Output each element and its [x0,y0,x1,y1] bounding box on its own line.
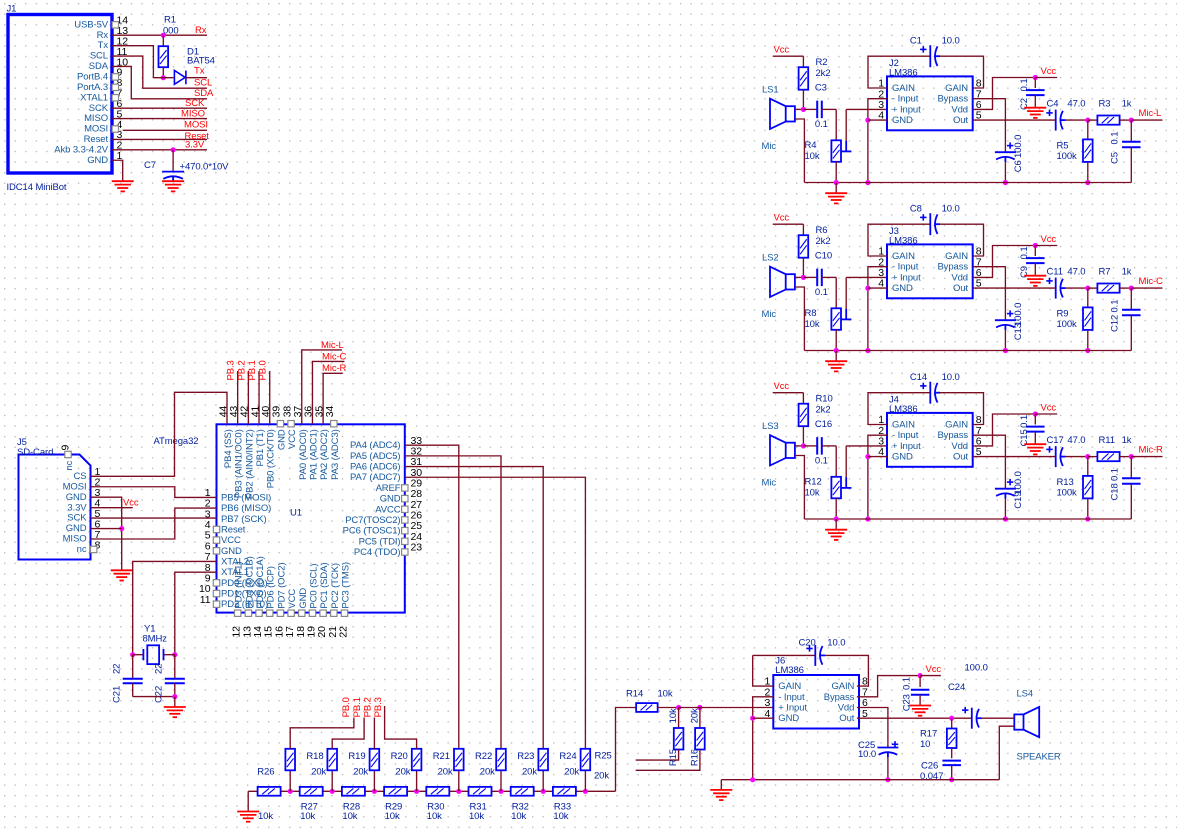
capacitor C12 0.1 [1130,288,1132,309]
capacitor C16 [803,445,817,447]
svg-text:GND: GND [66,523,87,534]
junction node C22 ground [172,694,177,699]
svg-text:PA6 (ADC6): PA6 (ADC6) [350,462,401,473]
svg-text:20k: 20k [480,766,495,777]
junction node J2 pin 4 [865,118,870,123]
wire net PB.1 to U1 pin 41 [258,371,260,424]
capacitor C26 0.047 [942,761,961,766]
wire net Mic-C [1131,287,1162,289]
U1 pin 39 unconnected stub [277,421,283,427]
wire R12 wiper to pin 3 [845,446,847,477]
svg-text:C13: C13 [1013,323,1024,340]
svg-text:Tx: Tx [98,40,109,51]
svg-text:SCK: SCK [67,513,87,524]
resistor R15 10k [678,708,680,729]
svg-text:47.0: 47.0 [1067,267,1085,278]
junction node rail C25 [885,777,890,782]
J1 pin 7 unconnected stub [112,95,118,101]
svg-text:PA5 (ADC5): PA5 (ADC5) [350,451,401,462]
trimmer R8 10k [835,277,837,308]
wire net Vcc stub to R2 [773,55,804,57]
resistor R10 2k2 [802,393,804,404]
wire U1 pin 31 to ladder [405,467,543,749]
junction node rail R12 [834,516,839,521]
svg-text:Out: Out [953,452,968,463]
svg-text:nc: nc [77,544,87,555]
op-amp J2 LM386 [887,76,973,130]
svg-text:Vcc: Vcc [926,664,942,675]
svg-text:GND: GND [276,429,287,450]
U1 pin 24 unconnected stub [402,538,408,544]
svg-text:GND: GND [380,494,401,505]
svg-text:1k: 1k [1122,99,1132,110]
svg-text:20k: 20k [594,771,609,782]
svg-text:000: 000 [163,26,179,37]
U1 pin 14 unconnected stub [256,610,262,616]
U1 pin 20 unconnected stub [320,610,326,616]
U1 pin 38 unconnected stub [288,421,294,427]
svg-text:GND: GND [778,713,799,724]
resistor R24 [542,770,544,791]
svg-text:ATmega32: ATmega32 [154,436,199,447]
svg-text:22: 22 [112,664,123,674]
svg-text:VCC: VCC [287,429,298,449]
svg-text:Vdd: Vdd [951,104,968,115]
svg-text:23: 23 [411,542,423,554]
svg-text:R15: R15 [668,749,679,766]
svg-text:J1: J1 [7,4,17,15]
svg-text:PB.2: PB.2 [362,697,373,717]
svg-text:CS: CS [74,471,87,482]
svg-text:PC3 (TMS): PC3 (TMS) [341,562,352,609]
resistor R22 [458,770,460,791]
svg-text:10.0: 10.0 [827,638,845,649]
J5 pin 8 unconnected stub [91,546,97,552]
wire ground rail of J3 [804,350,1131,352]
svg-text:10.0: 10.0 [942,372,960,383]
wire J2 pin 4 [868,119,887,121]
junction node out/R5 [1085,118,1090,123]
svg-text:9: 9 [60,445,72,451]
resistor R7 1k [1088,287,1098,289]
svg-text:Mic-L: Mic-L [321,340,344,351]
wire rail to ground J6 [720,780,722,790]
resistor R27 [300,787,323,796]
svg-text:C17: C17 [1047,435,1064,446]
svg-text:10k: 10k [805,319,820,330]
svg-text:10k: 10k [553,811,568,822]
svg-text:nc: nc [64,460,75,470]
svg-text:GND: GND [87,155,108,166]
capacitor C5 0.1 [1130,120,1132,141]
junction node rail R13 [1085,516,1090,521]
wire J5 MISO to U1 pin 2 [91,508,217,539]
junction node rail J2 [865,180,870,185]
wire J5 GND down [91,497,122,570]
junction node Vcc C15 [1033,411,1038,416]
capacitor C25 10.0 [877,748,898,758]
svg-text:C26: C26 [921,761,938,772]
wire U1 pin 30 to ladder [405,477,586,749]
wire net Rx from J1 pin 13 [112,34,207,36]
svg-text:Mic-R: Mic-R [1139,444,1164,455]
wire J3 pin 4 [868,287,887,289]
wire J4 pin 2 to ground rail [868,435,887,519]
U1 pin 17 unconnected stub [288,610,294,616]
svg-text:LM386: LM386 [889,235,918,246]
junction node out R17 [949,716,954,721]
capacitor C23 0.1 [919,676,921,687]
svg-text:C18: C18 [1109,483,1120,500]
wire net Mic-L to U1 pin 37 [302,350,342,424]
svg-text:100k: 100k [1057,151,1078,162]
svg-text:PB3 (AIN1/OC0): PB3 (AIN1/OC0) [234,429,245,498]
svg-text:Mic-L: Mic-L [1139,108,1162,119]
junction node J4 pin 4 [865,454,870,459]
U1 pin 21 unconnected stub [331,610,337,616]
junction node rail C19 [1003,516,1008,521]
svg-text:VCC: VCC [221,535,241,546]
svg-text:PC0 (SCL): PC0 (SCL) [308,564,319,609]
ground symbol below C2 [1024,108,1046,118]
svg-text:C21: C21 [112,686,123,703]
diode D1 BAT54 [153,77,173,79]
capacitor C22 [174,655,176,679]
svg-text:Mic: Mic [762,309,777,320]
wire ladder output to R14 [616,708,637,792]
svg-text:PC1 (SDA): PC1 (SDA) [319,563,330,609]
wire R8 wiper to pin 3 [845,277,847,308]
junction node rail C26 [949,777,954,782]
junction node ladder [330,789,335,794]
resistor R26 [258,787,281,796]
wire net Mic-R to U1 pin 35 [323,373,343,424]
svg-text:10.0: 10.0 [942,35,960,46]
wire J6 pin 5 out [857,717,972,719]
svg-text:20k: 20k [522,766,537,777]
wire J4 pin 6 to Vcc [973,414,1036,446]
svg-text:Rx: Rx [97,30,109,41]
svg-text:PC4 (TDO): PC4 (TDO) [354,547,401,558]
op-amp J3 LM386 [887,244,973,298]
svg-text:1k: 1k [1122,267,1132,278]
wire J4 pin 5 out [973,456,1056,458]
capacitor C17 47.0 [1056,446,1066,467]
svg-text:10k: 10k [258,811,273,822]
resistor R16 20k [699,708,701,729]
junction node rail C13 [1003,348,1008,353]
svg-text:Bypass: Bypass [937,430,968,441]
resistor R33 [553,787,576,796]
svg-text:SCL: SCL [90,51,108,62]
svg-text:3.3V: 3.3V [185,140,205,151]
junction node rail R5 [1085,180,1090,185]
svg-text:PC5 (TDI): PC5 (TDI) [359,536,401,547]
wire net PB.2 to U1 pin 42 [247,371,249,424]
resistor R23 [500,770,502,791]
svg-text:GND: GND [298,588,309,609]
junction node rail J4 [865,516,870,521]
svg-text:C8: C8 [910,203,922,214]
svg-text:SPEAKER: SPEAKER [1017,752,1061,763]
svg-text:R14: R14 [626,689,643,700]
U1 pin 4 unconnected stub [213,526,219,532]
svg-text:0.1: 0.1 [1019,246,1030,259]
U1 pin 26 unconnected stub [402,517,408,523]
resistor R20 [373,770,375,791]
svg-text:R2: R2 [816,57,828,68]
wire net Tx from J1 pin 12 [112,46,153,78]
svg-text:Vcc: Vcc [774,381,790,392]
U1 pin 19 unconnected stub [309,610,315,616]
svg-text:Out: Out [839,713,854,724]
ground symbol of J6 block [710,790,732,800]
svg-text:3.3V: 3.3V [67,502,87,513]
U1 pin 10 unconnected stub [213,590,219,596]
svg-text:PD4 (OC1B): PD4 (OC1B) [244,556,255,608]
svg-text:XTAL1: XTAL1 [80,92,108,103]
svg-text:PC7(TOSC2): PC7(TOSC2) [345,515,400,526]
wire net PB.2 to R20 [373,718,375,749]
svg-text:GND: GND [66,492,87,503]
svg-text:USB-5V: USB-5V [74,19,108,30]
wire net Vcc stub to R6 [773,223,804,225]
svg-text:10k: 10k [427,811,442,822]
svg-text:GAIN: GAIN [831,681,854,692]
U1 pin 16 unconnected stub [277,610,283,616]
svg-text:PB.1: PB.1 [352,697,363,717]
wire J5 GND pin 6 [91,528,122,530]
svg-text:0.1: 0.1 [1109,468,1120,481]
junction node LS2/R6/C10 [801,275,806,280]
junction node LS1/R2/C3 [801,107,806,112]
svg-text:GND: GND [892,452,913,463]
svg-text:R12: R12 [805,477,822,488]
resistor R2 2k2 [802,56,804,67]
svg-text:PB.2: PB.2 [236,360,247,380]
capacitor C7 [172,150,174,172]
svg-text:VCC: VCC [287,589,298,609]
capacitor C18 0.1 [1130,457,1132,478]
wire R4 wiper to pin 3 [845,109,847,140]
svg-text:10k: 10k [342,811,357,822]
resistor R29 [384,787,407,796]
svg-text:10k: 10k [805,151,820,162]
svg-text:22: 22 [338,626,350,638]
capacitor C3 [803,108,817,110]
svg-text:Tx: Tx [194,66,205,77]
U1 pin 9 unconnected stub [213,580,219,586]
svg-text:1k: 1k [1122,435,1132,446]
connector J1 IDC14 MiniBot [8,15,112,174]
svg-text:47.0: 47.0 [1067,99,1085,110]
svg-text:MISO: MISO [84,113,108,124]
svg-text:GND: GND [221,546,242,557]
wire net Reset from J1 pin 3 [112,138,207,140]
svg-text:0.047: 0.047 [920,771,943,782]
wire net Mic-L [1131,119,1162,121]
svg-text:10k: 10k [469,811,484,822]
resistor R11 1k [1088,456,1098,458]
svg-text:C7: C7 [144,160,156,171]
svg-text:Vdd: Vdd [838,703,855,714]
svg-text:PB.3: PB.3 [226,360,237,380]
svg-text:SD-Card: SD-Card [17,447,53,458]
wire J6 pin 2 to ground [753,697,774,780]
svg-text:100.0: 100.0 [1013,303,1024,326]
capacitor C8 10.0 [930,213,940,235]
wire ladder bottom rail [248,790,615,792]
svg-text:PA4 (ADC4): PA4 (ADC4) [350,440,401,451]
wire J4 pin 1 to C14 [868,393,930,425]
svg-text:MISO: MISO [63,534,87,545]
svg-text:2k2: 2k2 [816,68,831,79]
junction node ladder [288,789,293,794]
ground symbol below J1 [112,181,134,191]
svg-text:Bypass: Bypass [937,262,968,273]
svg-text:C4: C4 [1047,99,1059,110]
resistor R25 [584,770,586,791]
resistor R21 [416,770,418,791]
wire U1 pin 44 to J5 CS [91,392,228,476]
svg-text:C23: C23 [902,694,913,711]
ground symbol of J2 block [825,193,847,203]
svg-text:+ Input: + Input [892,441,921,452]
svg-text:PD5 (OC1A): PD5 (OC1A) [255,556,266,608]
svg-text:GAIN: GAIN [945,420,968,431]
wire J5 MOSI to U1 pin 1 [91,487,217,498]
wire net PB.0 to R18 [290,718,354,749]
ground symbol below C15 [1024,444,1046,454]
svg-text:20k: 20k [311,766,326,777]
svg-text:PB.0: PB.0 [341,697,352,717]
svg-text:PB1 (T1): PB1 (T1) [255,429,266,466]
svg-text:20k: 20k [438,766,453,777]
wire LS3 top pin [795,445,804,447]
wire net Mic-C to U1 pin 36 [312,361,344,424]
svg-text:Vcc: Vcc [1041,234,1057,245]
junction node rail J3 [865,348,870,353]
junction node 3.3V/C7 [171,147,176,152]
svg-text:C24: C24 [948,682,965,693]
junction node ladder [372,789,377,794]
svg-text:Reset: Reset [221,524,246,535]
svg-text:PB2 (AIN0/INT2): PB2 (AIN0/INT2) [244,429,255,499]
svg-text:C1: C1 [910,35,922,46]
wire LS2 top pin [795,276,804,278]
svg-text:PortB.4: PortB.4 [77,72,108,83]
svg-text:+ Input: + Input [892,272,921,283]
svg-text:C16: C16 [815,419,832,430]
svg-text:10: 10 [920,739,930,750]
capacitor C19 100.0 [995,489,1016,499]
svg-text:PB0 (XCK/T0): PB0 (XCK/T0) [266,429,277,488]
svg-text:PB7 (SCK): PB7 (SCK) [221,514,267,525]
wire J3 pin 7 to C13 [973,267,1006,321]
svg-text:R11: R11 [1099,435,1115,446]
J1 pin 9 unconnected stub [112,74,118,80]
junction node rail R4 [834,180,839,185]
svg-text:PA3 (ADC3): PA3 (ADC3) [330,429,341,480]
wire U1 XTAL2 to crystal [133,561,217,654]
junction node rail J6 pin2 [750,777,755,782]
wire net Mic-R [1131,456,1162,458]
wire C1 to J2 pin 8 [940,56,984,88]
U1 pin 6 unconnected stub [213,548,219,554]
svg-text:Mic: Mic [762,477,777,488]
svg-text:GND: GND [892,115,913,126]
wire J3 pin 5 out [973,287,1056,289]
wire LS2 bottom pin to rail [795,287,805,351]
resistor R18 [289,770,291,791]
capacitor C13 100.0 [995,320,1016,330]
svg-text:R23: R23 [517,751,534,762]
svg-text:PB4 (SS): PB4 (SS) [223,429,234,468]
svg-text:R24: R24 [559,751,576,762]
svg-text:PA7 (ADC7): PA7 (ADC7) [350,472,401,483]
microphone speaker LS1 [770,99,795,129]
capacitor C2 0.1 [1034,78,1036,89]
svg-text:PortA.3: PortA.3 [77,82,108,93]
capacitor C10 [803,276,817,278]
svg-text:C14: C14 [910,372,927,383]
wire net PB.3 to U1 pin 43 [237,371,239,424]
U1 pin 11 unconnected stub [213,601,219,607]
resistor R14 10k [636,703,658,712]
svg-text:20k: 20k [353,766,368,777]
svg-text:Bypass: Bypass [937,94,968,105]
svg-text:Vcc: Vcc [774,45,790,56]
J1 pin 4 unconnected stub [112,126,118,132]
wire R4 rail to ground [835,183,837,194]
svg-text:C20: C20 [799,638,816,649]
junction node rail R8 [834,348,839,353]
svg-text:R4: R4 [805,140,817,151]
svg-text:R20: R20 [391,751,408,762]
resistor R5 100k [1087,120,1089,139]
svg-text:GND: GND [892,283,913,294]
wire J2 pin 7 to C6 [973,99,1006,153]
svg-text:SDA: SDA [89,61,109,72]
svg-text:Rx: Rx [195,25,207,36]
svg-text:10k: 10k [385,811,400,822]
svg-text:Vcc: Vcc [123,497,139,508]
svg-text:R26: R26 [257,767,274,778]
wire net Vcc at J5 pin 4 [91,507,133,509]
wire net Vcc stub to R10 [773,392,804,394]
svg-text:R8: R8 [805,308,817,319]
capacitor C4 47.0 [1056,110,1066,131]
U1 pin 13 unconnected stub [245,610,251,616]
svg-text:PB.3: PB.3 [373,697,384,717]
svg-text:C6: C6 [1013,160,1024,172]
junction node J6 pin 4 [750,716,755,721]
svg-text:LS4: LS4 [1017,688,1034,699]
junction node LS3/R10/C16 [801,443,806,448]
capacitor C24 100.0 [972,708,982,729]
ground symbol below J5 [111,570,133,580]
svg-text:Out: Out [953,115,968,126]
ground symbol at ladder left [247,791,249,811]
junction node out/R13 [1085,454,1090,459]
svg-text:R25: R25 [595,751,612,762]
ground symbol of J3 block [825,361,847,371]
svg-text:0.1: 0.1 [1019,78,1030,91]
svg-text:R18: R18 [306,751,323,762]
J1 pin 14 unconnected stub [112,22,118,28]
wire net SCL from J1 pin 11 [112,56,207,88]
wire R8 rail to ground [835,351,837,362]
